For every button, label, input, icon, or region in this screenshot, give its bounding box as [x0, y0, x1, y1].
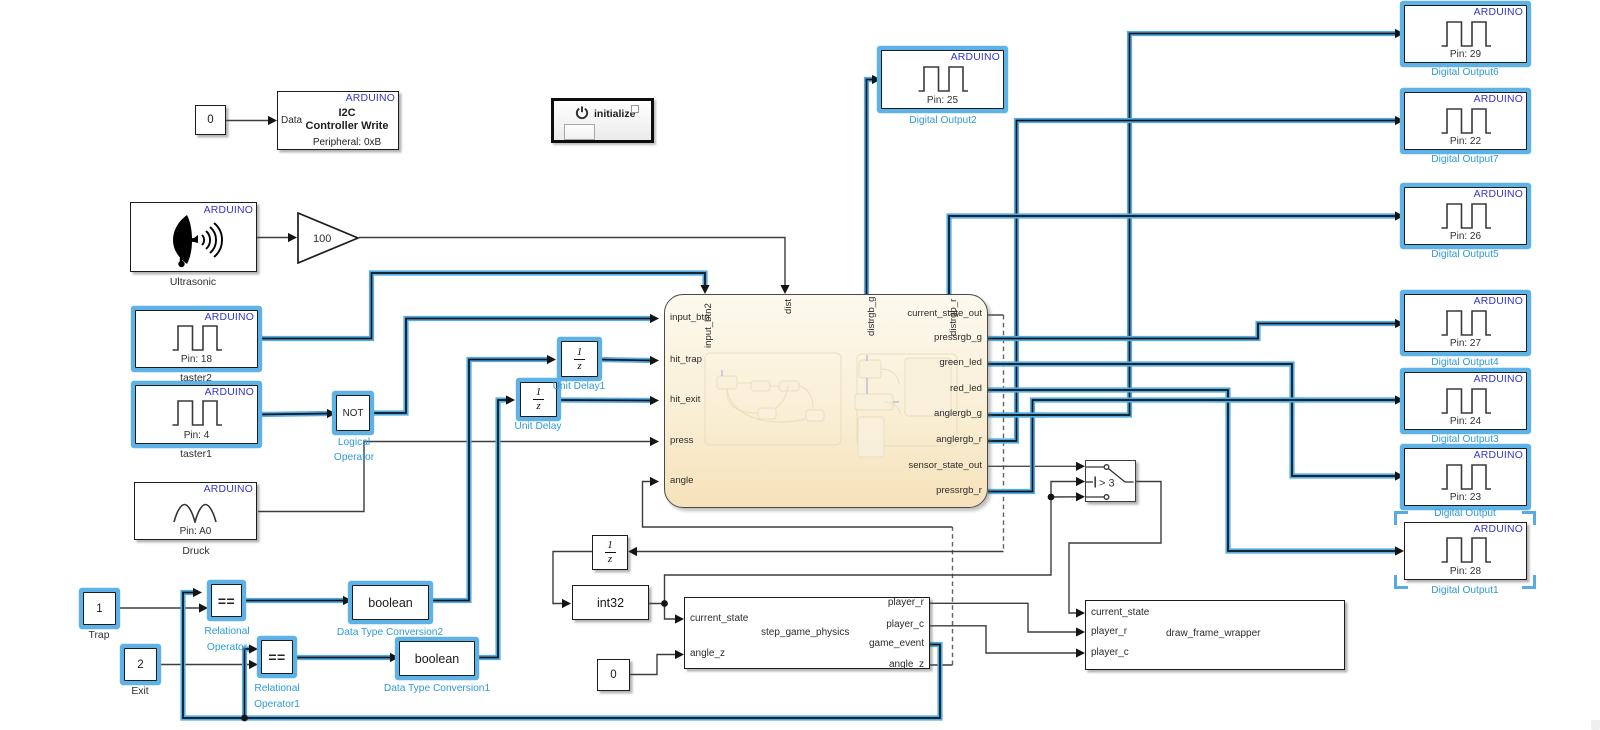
label Data Type Conversion2	[337, 627, 443, 638]
arrow into flipped Unit Delay2	[628, 547, 637, 556]
arrow into chart press	[650, 437, 659, 446]
wire ==1 -> Data Type Conversion1	[293, 655, 392, 660]
wire branch to Switch control input	[1051, 482, 1079, 498]
block taster1 (Arduino Digital Input Pin 4)	[135, 385, 258, 444]
block I2C Controller Write (Arduino)	[277, 91, 399, 150]
arrow into ==1 in2	[249, 660, 258, 669]
block Druck (Arduino Analog Input Pin A0)	[134, 482, 257, 540]
selection corner brackets of Digital Output1	[1394, 511, 1536, 591]
block Constant2 value 0	[195, 105, 226, 135]
svg-text:100: 100	[313, 233, 331, 245]
wire game_event -> relational operators (selected)	[183, 593, 940, 719]
block Trap (Constant 1)	[83, 592, 116, 625]
arrow into Pin28	[1395, 546, 1404, 555]
wire Switch -> draw_frame_wrapper current_state	[1069, 482, 1161, 614]
wire DTC1 -> Unit Delay	[475, 400, 508, 658]
block Switch (threshold > 3)	[1085, 460, 1136, 502]
block Exit (Constant 2)	[124, 648, 157, 681]
block Stateflow chart (game state machine)	[664, 294, 988, 508]
label taster2	[180, 373, 212, 384]
block taster2 (Arduino Digital Input Pin 18)	[135, 310, 258, 368]
label Digital Output4	[1431, 357, 1498, 368]
arrow into NOT	[327, 409, 336, 418]
hop patch: anglergb_g over anglergb_r / pressrgb_r risers	[1004, 412, 1046, 417]
wire pressrgb_g -> Digital Output4 (Pin 27)	[988, 324, 1397, 339]
arrow into draw current_state	[1076, 608, 1085, 617]
block draw_frame_wrapper (MATLAB Function)	[1085, 600, 1345, 670]
wire Unit Delay1 -> chart hit_trap	[598, 360, 653, 361]
wire player_c -> draw_frame_wrapper player_c	[930, 626, 1078, 653]
wire green_led -> Digital Output (Pin 23)	[988, 364, 1397, 476]
wire Druck -> chart press	[258, 442, 653, 512]
arrow into chart dist	[780, 285, 789, 294]
wire Gain -> chart dist (top port)	[359, 238, 785, 288]
block Digital Output6 (Arduino Digital Output, Pin 29)	[1404, 5, 1527, 63]
wire branch to Switch in3	[1051, 496, 1079, 498]
label Relational<br>Operator	[204, 624, 249, 656]
wire game_event branch to ==1	[245, 649, 252, 718]
wire Constant1 (0) -> step angle_z	[630, 655, 677, 675]
label Digital Output5	[1431, 249, 1498, 260]
arrow into boolean DTC2	[343, 596, 352, 605]
label taster1	[180, 449, 212, 460]
block Digital Output5 (Arduino Digital Output, Pin 26)	[1404, 187, 1527, 245]
wire chart distrgb_g -> Digital Output2	[867, 80, 875, 295]
wire NOT -> chart input_btn	[370, 319, 652, 414]
block Relational Operator (==)	[211, 584, 242, 617]
block Unit Delay (1/z)	[520, 382, 557, 417]
wire == -> Data Type Conversion2	[242, 598, 345, 603]
arrow into Switch in2	[1076, 477, 1085, 486]
wire distrgb_r -> Digital Output5 (Pin 26)	[949, 216, 1397, 294]
hop patch: pressrgb_r over red_led riser	[1215, 397, 1241, 402]
arrow into int32	[562, 599, 571, 608]
wire anglergb_r -> Digital Output7 (Pin 22)	[988, 121, 1397, 442]
block Relational Operator1 (==)	[261, 640, 293, 674]
arrow into Pin26	[1395, 211, 1404, 220]
arrow into Switch in3	[1076, 492, 1085, 501]
arrow into Pin24	[1395, 395, 1404, 404]
scrollbar corner artifact bottom-right	[1591, 720, 1600, 730]
junction at int32 output	[661, 600, 668, 607]
arrow into boolean DTC1	[390, 653, 399, 662]
block Constant1 (0)	[597, 659, 630, 691]
wire Unit Delay2 -> int32 conversion	[553, 552, 592, 604]
arrow into Gain	[288, 233, 297, 242]
label Digital Output	[1434, 508, 1496, 519]
block Digital Output7 (Arduino Digital Output, Pin 22)	[1404, 92, 1527, 150]
arrow into Switch in1	[1076, 462, 1085, 471]
label Digital Output7	[1431, 154, 1498, 165]
label Relational<br>Operator1	[254, 681, 300, 713]
label Data Type Conversion1	[384, 683, 490, 694]
block Data Type Conversion2 (boolean)	[352, 585, 429, 620]
wire sensor_state_out -> Switch in1	[988, 465, 1079, 467]
block Digital Output4 (Arduino Digital Output, Pin 27)	[1404, 294, 1527, 352]
svg-text:distrgb_g: distrgb_g	[866, 297, 877, 336]
arrow into Pin22	[1395, 116, 1404, 125]
label Unit Delay1	[553, 381, 606, 392]
label Digital Output6	[1431, 67, 1498, 78]
svg-text:input_btn2: input_btn2	[703, 303, 714, 348]
block Data Type Conversion1 (boolean)	[399, 641, 475, 676]
arrow into input_btn2 top	[700, 285, 709, 294]
wire red_led -> Digital Output1 (Pin 28)	[988, 390, 1397, 551]
block step_game_physics (MATLAB Function)	[684, 597, 930, 669]
arrow into draw player_c	[1076, 648, 1085, 657]
wire taster2 -> chart input_btn2 (top)	[258, 273, 705, 339]
label Digital Output2	[909, 115, 976, 126]
block Gain 100	[297, 212, 361, 264]
label Exit	[131, 686, 148, 697]
arrow into == in1	[193, 588, 202, 597]
wire taster1 -> NOT	[258, 414, 329, 415]
block initialize (Initialize Function subsystem)	[551, 98, 654, 143]
arrow into Pin23	[1395, 471, 1404, 480]
label Ultrasonic	[170, 277, 216, 288]
wire Ultrasonic -> Gain	[257, 237, 290, 239]
arrow into Pin29	[1395, 29, 1404, 38]
block Ultrasonic (Arduino ultrasonic sensor)	[130, 202, 257, 272]
wire int32 branch -> Switch control/data	[665, 497, 1052, 604]
wire int32 -> step_game_physics current_state	[649, 604, 678, 620]
wire Constant0 -> I2C Data	[226, 120, 271, 122]
arrow into draw player_r	[1076, 627, 1085, 636]
arrow into == in2	[199, 603, 208, 612]
junction on game_event line	[241, 715, 248, 722]
wire anglergb_g -> Digital Output6 (Pin 29)	[988, 34, 1397, 416]
hop patch: pressrgb_r over green_led riser	[1279, 397, 1305, 402]
svg-text:dist: dist	[783, 299, 794, 314]
wire Exit -> Relational Operator1 in2	[157, 664, 251, 666]
arrow into Unit Delay1	[547, 355, 556, 364]
block NOT (Logical Operator)	[336, 395, 370, 431]
junction at switch branch	[1048, 494, 1055, 501]
arrow into step angle_z	[675, 650, 684, 659]
wire DTC2 -> Unit Delay1	[429, 360, 549, 601]
label Druck	[182, 546, 209, 557]
arrow into chart angle	[650, 477, 659, 486]
block Digital Output (Arduino Digital Output, Pin 23)	[1404, 448, 1527, 506]
wire player_r -> draw_frame_wrapper player_r	[930, 603, 1078, 632]
arrow into hit_trap	[650, 356, 659, 365]
wire pressrgb_r -> Digital Output3 (Pin 24)	[988, 400, 1397, 492]
block Digital Output3 (Arduino Digital Output, Pin 24)	[1404, 372, 1527, 430]
label Unit Delay	[515, 421, 562, 432]
block Unit Delay1 (1/z)	[561, 341, 598, 377]
label Logical<br>Operator	[334, 435, 374, 465]
block Unit Delay2 (1/z flipped)	[592, 535, 628, 570]
label Digital Output3	[1431, 434, 1498, 445]
svg-text:> 3: > 3	[1099, 477, 1115, 489]
wire Unit Delay -> chart hit_exit	[557, 397, 653, 403]
block Digital Output1 (Pin 28, bracket-highlighted)	[1404, 522, 1527, 580]
wire current_state_out -> Unit Delay2 (flipped), dashed riser	[988, 314, 1004, 316]
arrow into ==1 in1	[249, 644, 258, 653]
block int32 (Data Type Conversion to int32)	[572, 585, 649, 620]
arrow into input_btn	[650, 314, 659, 323]
label Trap	[89, 630, 110, 641]
label Digital Output1	[1431, 585, 1498, 596]
arrow into current_state	[675, 614, 684, 623]
arrow into I2C Data	[268, 116, 277, 125]
block Digital Output2 (Pin 25)	[881, 50, 1004, 109]
arrow into Pin27	[1395, 319, 1404, 328]
arrow into hit_exit	[650, 396, 659, 405]
wire Trap -> Relational Operator in2	[116, 607, 201, 609]
arrow into Unit Delay	[506, 395, 515, 404]
arrow into Digital Output2	[872, 75, 881, 84]
wire angle feedback (angle_z -> chart angle), dashed riser	[930, 664, 953, 666]
